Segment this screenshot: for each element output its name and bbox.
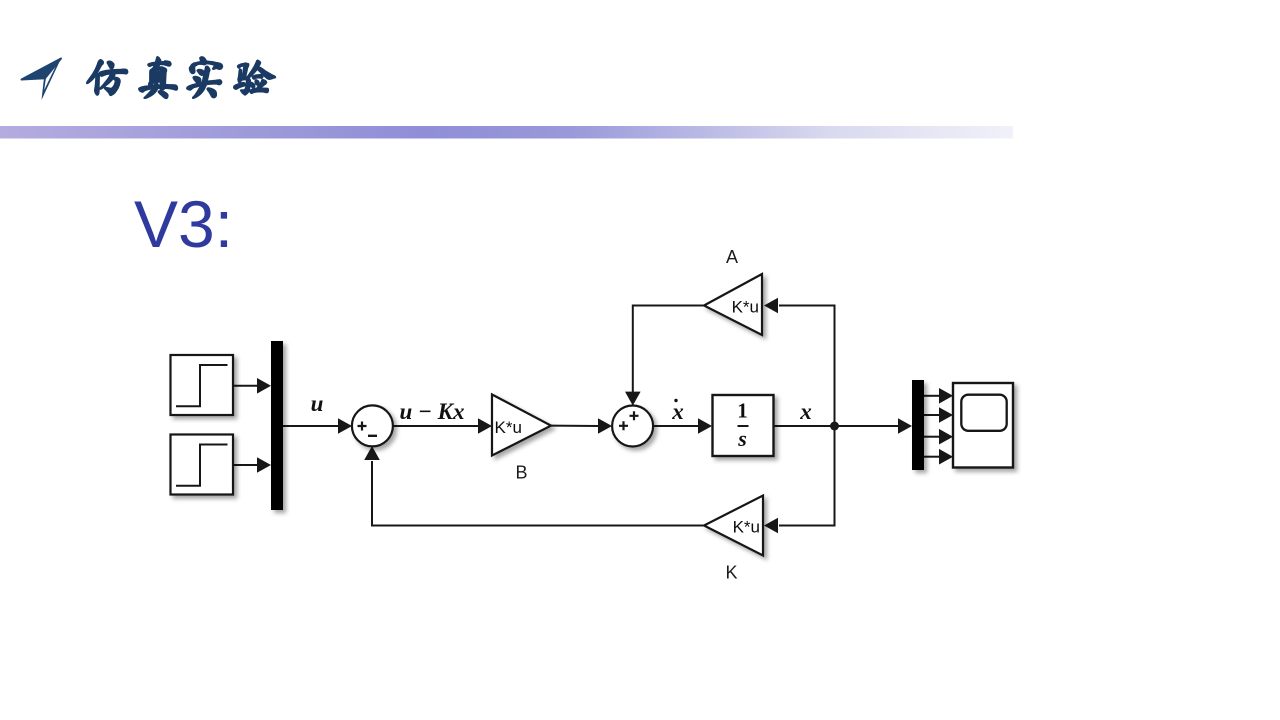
wire gain B to sum2: [551, 425, 599, 427]
svg-text:A: A: [726, 247, 738, 267]
wire demux to scope port1: [924, 395, 940, 397]
junction node dot: [830, 422, 839, 431]
svg-text:B: B: [515, 463, 527, 483]
svg-text:K*u: K*u: [733, 518, 760, 537]
sum junction 2: [612, 406, 653, 447]
gradient divider bar: [0, 126, 1013, 139]
header paper-plane icon: [22, 59, 62, 101]
arrow into scope port2: [939, 407, 953, 423]
gain A: [704, 274, 762, 335]
gain K: [704, 496, 763, 556]
gain B: [492, 395, 551, 456]
wire demux to scope port3: [924, 436, 940, 438]
wire step2 to mux: [233, 464, 258, 466]
wire gain K output to sum1: [372, 461, 704, 526]
demux bar: [912, 380, 924, 470]
arrow into integrator: [698, 418, 712, 434]
arrow into sum2 from gain B: [598, 418, 612, 434]
arrow into gain A: [764, 298, 778, 314]
svg-text:1: 1: [737, 399, 748, 423]
arrow into sum1 from gain K: [364, 446, 380, 460]
wire integrator to demux: [773, 425, 899, 427]
svg-text:u − Kx: u − Kx: [399, 399, 464, 424]
svg-text:x: x: [799, 399, 812, 424]
svg-text:u: u: [311, 391, 324, 416]
svg-text:x: x: [671, 399, 684, 424]
arrow into scope port1: [939, 388, 953, 404]
arrow into sum2 from gain A: [625, 392, 641, 406]
integrator block 1/s: [713, 395, 774, 456]
mux bar: [271, 341, 283, 510]
arrow into sum1: [338, 418, 352, 434]
wire gain A output down to sum2: [633, 306, 704, 393]
wire step1 to mux: [233, 385, 258, 387]
svg-text:V3:: V3:: [134, 187, 233, 261]
arrow into demux: [898, 418, 912, 434]
svg-text:K*u: K*u: [732, 298, 759, 317]
svg-text:s: s: [737, 426, 747, 451]
wire demux to scope port4: [924, 456, 940, 458]
step block 2: [171, 435, 234, 495]
arrow into mux from step1: [257, 378, 271, 394]
wire junction up to gain A input: [779, 306, 835, 427]
arrow into mux from step2: [257, 457, 271, 473]
arrow into scope port3: [939, 429, 953, 445]
scope block: [953, 383, 1013, 468]
arrow into gain B: [478, 418, 492, 434]
arrow into gain K: [764, 518, 778, 534]
wire junction down to gain K input: [779, 426, 835, 526]
wire sum2 to integrator: [653, 425, 699, 427]
wire sum1 to gain B: [393, 425, 479, 427]
title 仿真实验: [87, 57, 275, 98]
wire demux to scope port2: [924, 414, 940, 416]
arrow into scope port4: [939, 449, 953, 465]
step block 1: [171, 355, 234, 415]
wire mux to sum1: [283, 425, 339, 427]
sum junction 1: [352, 405, 393, 446]
svg-text:K*u: K*u: [495, 418, 522, 437]
svg-text:K: K: [725, 563, 737, 583]
